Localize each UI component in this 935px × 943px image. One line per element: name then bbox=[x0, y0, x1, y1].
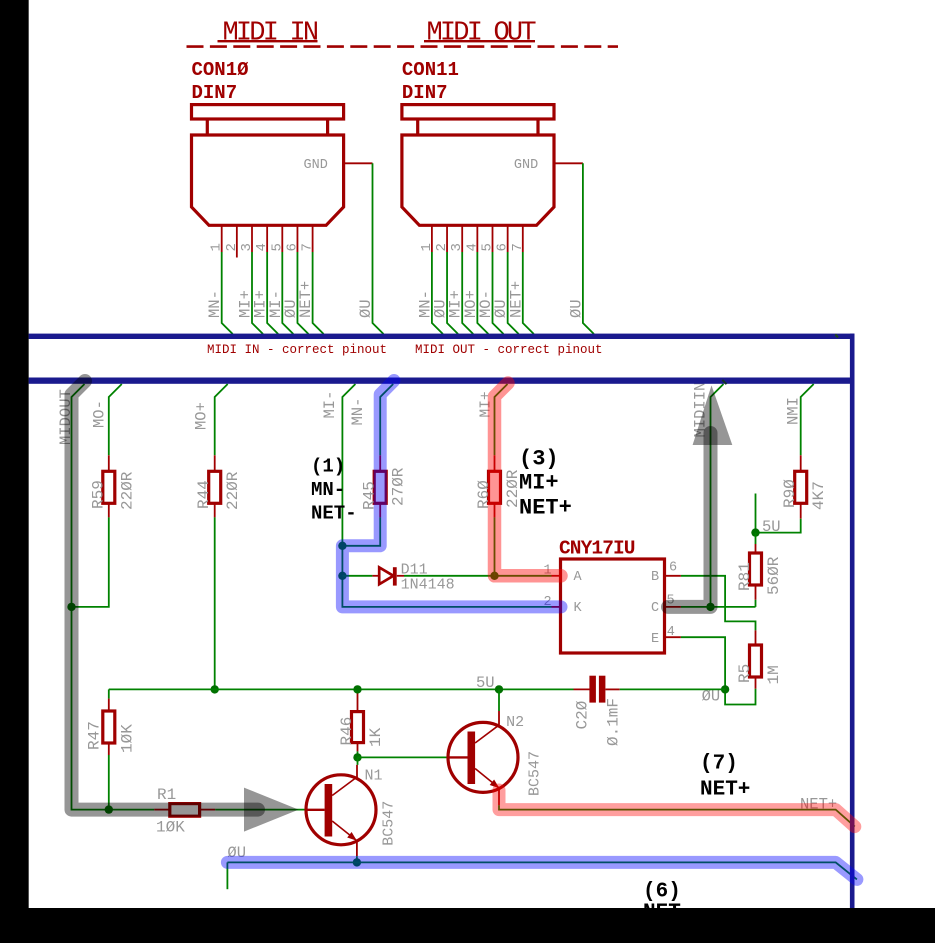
resistor R81 bbox=[750, 553, 762, 585]
wire N2 emitter NET+ bbox=[498, 788, 500, 805]
CON11 pin 7 bbox=[522, 225, 524, 252]
wire 5V to R81 bbox=[755, 533, 757, 544]
frame top bar bbox=[29, 334, 855, 339]
resistor R46 top bbox=[357, 689, 359, 700]
svg-text:R9Ø: R9Ø bbox=[781, 479, 799, 508]
svg-text:MIDI OUT: MIDI OUT bbox=[427, 18, 537, 48]
wire CON11 pin 1 net MN- bbox=[432, 252, 443, 334]
wire MI- column bbox=[342, 384, 355, 546]
junction 5V node bbox=[751, 528, 759, 536]
resistor R47 bbox=[103, 711, 115, 743]
wire MIDIIN column bbox=[711, 384, 724, 607]
connector CON10 top bar bbox=[192, 105, 344, 119]
svg-text:CNY17IU: CNY17IU bbox=[559, 538, 635, 560]
wire MN- column R45 bbox=[380, 384, 393, 455]
transistor N1 BC547 bbox=[306, 775, 376, 845]
svg-text:NMI: NMI bbox=[785, 397, 803, 425]
highlight MI+/NET+ net red bbox=[495, 383, 562, 576]
svg-text:22ØR: 22ØR bbox=[504, 469, 522, 508]
resistor R59 bbox=[103, 471, 115, 503]
wire R1 to N1 base bbox=[215, 809, 306, 811]
CON11 pin 4 bbox=[476, 225, 478, 252]
wire MIDOUT column bbox=[72, 384, 155, 810]
wire CON10 GND 0V bbox=[373, 163, 384, 334]
svg-text:MO+: MO+ bbox=[193, 402, 211, 430]
connector CON11 right leg bbox=[536, 119, 539, 136]
arrow MIDOUT gray bbox=[244, 788, 299, 832]
canvas mask left bbox=[0, 0, 29, 943]
CON10 pin 1 bbox=[221, 225, 223, 252]
underline MIDI IN bbox=[218, 40, 318, 42]
svg-text:GND: GND bbox=[304, 158, 328, 173]
transistor N2 BC547 bbox=[448, 722, 518, 792]
wire R90 bottom to 5V node bbox=[756, 519, 801, 533]
wire CON10 pin 3 net MI+ bbox=[252, 252, 263, 334]
arrow MIDIIN gray bbox=[693, 385, 733, 445]
junction R46/N1 collector/N2 base bbox=[353, 753, 361, 761]
svg-text:MN-: MN- bbox=[206, 290, 224, 318]
svg-text:R5: R5 bbox=[736, 664, 754, 683]
wire R5 bottom to 0V bbox=[725, 689, 755, 705]
wire N2 base bbox=[358, 756, 448, 758]
wire CON11 pin 2 net 0V bbox=[447, 252, 458, 334]
resistor R1 left pin bbox=[154, 809, 170, 811]
junction N2 collector/5V bbox=[495, 685, 503, 693]
svg-text:(1): (1) bbox=[311, 456, 345, 478]
capacitor C20 bbox=[574, 688, 591, 690]
resistor R60 bbox=[489, 471, 501, 503]
svg-text:5U: 5U bbox=[762, 518, 781, 536]
svg-text:4: 4 bbox=[667, 625, 675, 640]
svg-text:27ØR: 27ØR bbox=[390, 467, 408, 506]
dashed separator line bbox=[187, 45, 619, 48]
svg-text:R59: R59 bbox=[89, 480, 107, 509]
svg-text:56ØR: 56ØR bbox=[765, 556, 783, 595]
svg-text:NET+: NET+ bbox=[700, 779, 750, 802]
5V supply stub bbox=[755, 494, 757, 533]
svg-text:R44: R44 bbox=[195, 480, 213, 509]
svg-text:BC547: BC547 bbox=[527, 751, 544, 796]
svg-text:4K7: 4K7 bbox=[810, 481, 828, 510]
wire CON10 pin 7 net NET+ bbox=[313, 252, 324, 334]
wire CON10 pin 6 net 0V bbox=[297, 252, 308, 334]
resistor R1 right pin bbox=[200, 809, 216, 811]
wire CON10 pin 5 net MI- bbox=[282, 252, 293, 334]
svg-text:22ØR: 22ØR bbox=[224, 471, 242, 510]
resistor R90 bbox=[795, 471, 807, 503]
svg-text:2: 2 bbox=[224, 243, 240, 251]
CON11 pin 3 bbox=[461, 225, 463, 252]
svg-text:R46: R46 bbox=[338, 717, 356, 746]
CON11 pin 1 bbox=[431, 225, 433, 252]
resistor R45 bbox=[374, 471, 386, 503]
CON10 pin 5 bbox=[281, 225, 283, 252]
svg-text:5: 5 bbox=[269, 243, 285, 251]
wire MO+ column R44 bbox=[215, 384, 228, 455]
wire 0V bottom line bbox=[227, 862, 857, 879]
svg-text:DIN7: DIN7 bbox=[192, 82, 238, 104]
wire R59 bottom to MIDOUT bbox=[72, 517, 109, 607]
wire MIDIIN tick on frame bar bbox=[722, 380, 726, 384]
svg-text:MIDI OUT - correct pinout: MIDI OUT - correct pinout bbox=[415, 343, 603, 357]
junction MIDOUT/R59 bbox=[67, 603, 75, 611]
wire CON10 pin 1 net MN- bbox=[222, 252, 233, 334]
resistor R46 bbox=[357, 700, 359, 712]
wire CON11 pin 6 net 0V bbox=[508, 252, 519, 334]
resistor R5 bbox=[750, 645, 762, 677]
svg-text:1K: 1K bbox=[367, 727, 385, 747]
highlight MIDOUT net gray bbox=[72, 381, 259, 810]
svg-text:MI-: MI- bbox=[321, 391, 339, 419]
svg-text:Ø.1mF: Ø.1mF bbox=[604, 698, 622, 746]
svg-text:1N4148: 1N4148 bbox=[401, 577, 455, 594]
svg-text:1: 1 bbox=[419, 243, 435, 251]
junction MN-/MI- bbox=[338, 542, 346, 550]
svg-text:MN-: MN- bbox=[349, 398, 367, 426]
svg-text:B: B bbox=[651, 570, 659, 585]
wire tick on frame bar bbox=[835, 334, 838, 337]
svg-text:1ØK: 1ØK bbox=[118, 724, 136, 753]
wire pin4 E to 0V bbox=[681, 637, 725, 689]
wire CON11 pin 4 net MO+ bbox=[477, 252, 488, 334]
CON11 pin 6 bbox=[507, 225, 509, 252]
svg-text:(7): (7) bbox=[700, 753, 738, 776]
svg-text:ØU: ØU bbox=[357, 299, 375, 318]
connector CON11 left leg bbox=[416, 119, 419, 136]
svg-text:MN-: MN- bbox=[311, 479, 345, 501]
junction R44/5V rail bbox=[211, 685, 219, 693]
canvas mask bottom bbox=[0, 908, 935, 943]
svg-text:22ØR: 22ØR bbox=[118, 471, 136, 510]
CON10 pin 3 bbox=[251, 225, 253, 252]
svg-text:5: 5 bbox=[480, 243, 496, 251]
svg-text:K: K bbox=[574, 601, 583, 616]
CON10 pin 4 bbox=[266, 225, 268, 252]
svg-text:N1: N1 bbox=[365, 768, 383, 785]
svg-text:CON11: CON11 bbox=[402, 59, 459, 81]
CNY17 pin 5 C bbox=[665, 606, 681, 608]
wire 0V rail right bbox=[620, 688, 725, 690]
diode D11 bbox=[372, 575, 379, 577]
highlight MIDIIN net gray bbox=[668, 433, 711, 607]
svg-text:R47: R47 bbox=[86, 721, 104, 750]
wire CON11 pin 7 net NET+ bbox=[523, 252, 534, 334]
wire NMI column R90 bbox=[801, 384, 814, 455]
CNY17 pin 1 A bbox=[552, 575, 561, 577]
wire CON11 pin 3 net MI+ bbox=[462, 252, 473, 334]
svg-text:MIDI IN - correct pinout: MIDI IN - correct pinout bbox=[207, 343, 387, 357]
svg-text:NET+: NET+ bbox=[507, 281, 525, 318]
wire MI+ column R60 bbox=[495, 384, 508, 455]
svg-text:E: E bbox=[651, 632, 659, 647]
svg-text:1M: 1M bbox=[765, 665, 783, 684]
svg-text:MO-: MO- bbox=[91, 400, 109, 428]
svg-text:CON1Ø: CON1Ø bbox=[192, 59, 249, 81]
junction diode row bbox=[338, 572, 346, 580]
svg-text:4: 4 bbox=[464, 243, 480, 251]
wire diode row bbox=[342, 575, 372, 577]
svg-text:1: 1 bbox=[209, 243, 225, 251]
wire pin5 row C bbox=[681, 606, 756, 608]
svg-text:ØU: ØU bbox=[567, 299, 585, 318]
CON10 pin 2 bbox=[236, 225, 238, 257]
CON11 pin 2 bbox=[446, 225, 448, 252]
svg-text:DIN7: DIN7 bbox=[402, 82, 448, 104]
junction R46/5V rail bbox=[353, 685, 361, 693]
svg-text:6: 6 bbox=[495, 243, 511, 251]
CON10 pin 6 bbox=[296, 225, 298, 252]
wire pin6 B to R5 bbox=[681, 576, 756, 631]
svg-text:NET+: NET+ bbox=[519, 495, 572, 520]
junction R47/base row bbox=[105, 805, 113, 813]
wire CON11 GND 0V bbox=[583, 163, 594, 334]
connector CON11 top bar bbox=[402, 105, 554, 119]
connector CON10 body bbox=[192, 135, 344, 225]
CNY17 pin 2 K bbox=[552, 606, 561, 608]
highlight MN-/NET- net blue bbox=[342, 381, 561, 607]
highlight NET+ net red bottom bbox=[499, 790, 855, 827]
svg-text:A: A bbox=[574, 570, 583, 585]
connector CON11 body bbox=[402, 135, 554, 225]
wire N1 collector bbox=[357, 757, 359, 765]
junction MIDIIN/pin5 row bbox=[706, 603, 714, 611]
CON10 pin 7 bbox=[312, 225, 314, 252]
svg-text:4: 4 bbox=[254, 243, 270, 251]
svg-text:1ØK: 1ØK bbox=[156, 819, 185, 837]
svg-text:3: 3 bbox=[449, 243, 465, 251]
wire rail to R47 bbox=[108, 689, 110, 698]
svg-text:7: 7 bbox=[510, 243, 526, 251]
svg-text:NET+: NET+ bbox=[297, 281, 315, 318]
svg-text:(3): (3) bbox=[519, 447, 559, 472]
svg-text:2: 2 bbox=[434, 243, 450, 251]
svg-text:7: 7 bbox=[300, 243, 316, 251]
svg-text:MI+: MI+ bbox=[519, 470, 559, 495]
wire CON11 pin 5 net MO- bbox=[493, 252, 504, 334]
svg-text:5U: 5U bbox=[476, 674, 495, 692]
wire CON10 pin 4 net MI+ bbox=[267, 252, 278, 334]
svg-text:(6): (6) bbox=[643, 881, 681, 904]
svg-text:NET-: NET- bbox=[311, 503, 357, 525]
svg-text:6: 6 bbox=[284, 243, 300, 251]
connector CON10 left leg bbox=[206, 119, 209, 136]
CNY17 pin 6 B bbox=[665, 575, 681, 577]
opto-isolator U1 box bbox=[561, 559, 665, 653]
wire 5V rail bbox=[109, 688, 574, 690]
svg-text:3: 3 bbox=[239, 243, 255, 251]
connector CON10 GND pin bbox=[344, 162, 373, 164]
wire 0V drop bbox=[226, 862, 228, 889]
underline MIDI OUT bbox=[424, 40, 535, 42]
wire N2 collector to 5V bbox=[498, 711, 500, 725]
frame second bar bbox=[29, 378, 855, 384]
highlight 0V net blue bottom bbox=[227, 862, 857, 879]
wire R45 bottom to MI- column bbox=[342, 517, 551, 607]
wire MO- column R59 bbox=[109, 384, 122, 455]
svg-text:R1: R1 bbox=[157, 786, 176, 804]
junction 0V node bbox=[721, 685, 729, 693]
svg-text:BC547: BC547 bbox=[380, 801, 397, 846]
svg-text:R81: R81 bbox=[736, 562, 754, 591]
junction N1 emitter/0V line bbox=[353, 858, 361, 866]
svg-text:C: C bbox=[651, 601, 659, 616]
wire N1 emitter to 0V bbox=[356, 841, 358, 857]
frame right border bbox=[850, 334, 855, 908]
CON11 pin 5 bbox=[492, 225, 494, 252]
svg-text:N2: N2 bbox=[506, 714, 524, 731]
svg-text:GND: GND bbox=[514, 158, 538, 173]
wire diode to CNY pin1 bbox=[404, 575, 552, 577]
CNY17 pin 4 E bbox=[665, 636, 681, 638]
svg-text:C2Ø: C2Ø bbox=[573, 700, 591, 729]
svg-text:6: 6 bbox=[669, 561, 677, 576]
resistor R44 bbox=[209, 471, 221, 503]
connector CON11 GND pin bbox=[554, 162, 583, 164]
connector CON10 right leg bbox=[326, 119, 329, 136]
junction MI+/diode row bbox=[490, 572, 498, 580]
svg-text:MIDI IN: MIDI IN bbox=[223, 18, 318, 48]
resistor R1 bbox=[170, 804, 200, 817]
